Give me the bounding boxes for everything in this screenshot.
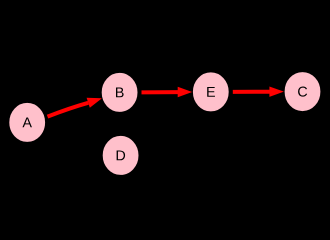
node D — [102, 135, 139, 175]
wire edge B->E shaft — [142, 90, 179, 94]
node E — [192, 72, 229, 112]
wire edge E->C shaft — [233, 90, 270, 94]
node A — [9, 102, 46, 142]
wire edge A->B shaft — [48, 103, 89, 117]
node B — [101, 72, 138, 112]
node C — [284, 72, 321, 112]
wire edge A->B arrowhead — [87, 98, 102, 108]
wire edge B->E arrowhead — [178, 87, 193, 97]
wire edge E->C arrowhead — [269, 86, 284, 96]
